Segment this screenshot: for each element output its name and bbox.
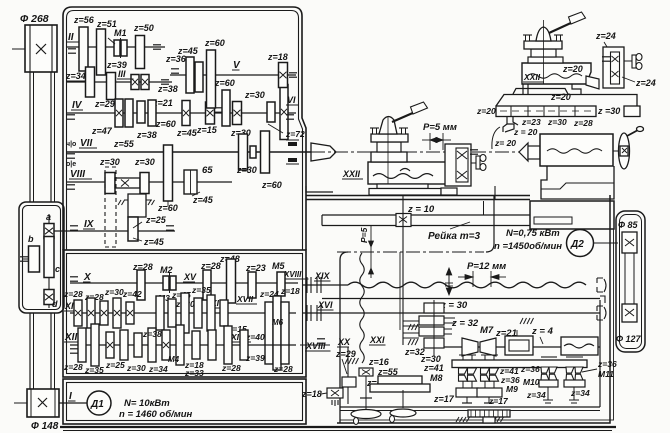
gear c tall (44, 237, 54, 278)
svg-text:IV: IV (72, 100, 83, 111)
gear VII b (261, 131, 270, 173)
svg-text:z=42: z=42 (122, 289, 142, 299)
cross screw knob (471, 155, 486, 171)
label XII (64, 332, 81, 343)
svg-text:z=30: z=30 (126, 363, 146, 373)
bevel pair M11 b (575, 367, 583, 380)
label VII (66, 138, 97, 149)
bearing shaft II right (153, 45, 161, 49)
shaft X (70, 282, 298, 284)
tool post 1 slide box (368, 162, 447, 184)
bevel pair M9 b (490, 368, 499, 381)
bevel pair M10 b (549, 367, 557, 380)
svg-text:z = 32: z = 32 (451, 318, 479, 329)
coupling box M7 right (505, 330, 533, 355)
gear X a (137, 270, 145, 300)
apron inner bottom (340, 407, 600, 411)
gears XVII stack (265, 296, 289, 370)
label XIV (210, 298, 227, 308)
tool post 1 axis (387, 116, 389, 184)
svg-text:z=17: z=17 (433, 394, 455, 404)
svg-text:z=38: z=38 (142, 329, 162, 339)
svg-text:z=24: z=24 (595, 31, 616, 41)
dashed gear IX (105, 167, 116, 247)
worm gear stack (419, 300, 444, 356)
svg-text:z=60: z=60 (157, 203, 178, 213)
carriage right support (494, 186, 496, 199)
gear IV mid1 (182, 101, 190, 126)
svg-text:z=28: z=28 (63, 289, 83, 299)
label XVIII right (305, 341, 331, 351)
bed top line (306, 195, 530, 197)
bed step from headstock (306, 186, 333, 192)
shaft XX vertical (347, 347, 349, 404)
svg-text:z=29: z=29 (94, 99, 115, 109)
bearing VIII left (67, 185, 75, 189)
svg-text:z=17: z=17 (488, 396, 509, 406)
svg-text:z=34: z=34 (526, 390, 546, 400)
svg-text:z=24: z=24 (635, 78, 656, 88)
turret center line (543, 20, 545, 84)
turret lever (549, 12, 586, 33)
handwheel small 1 (351, 376, 381, 425)
label VIII (66, 161, 92, 180)
gears XI row (74, 298, 134, 328)
shaft I (59, 402, 88, 404)
svg-text:Р=12 мм: Р=12 мм (467, 261, 506, 272)
gear z60 VIII bottom (167, 201, 169, 206)
svg-text:о|е: о|е (66, 161, 76, 168)
apron dial (468, 410, 510, 423)
svg-text:z=45: z=45 (176, 128, 198, 138)
gear z56 (79, 27, 88, 71)
svg-text:Ф 148: Ф 148 (31, 421, 59, 432)
svg-text:z=56: z=56 (73, 15, 95, 25)
svg-text:z=60: z=60 (261, 180, 282, 190)
bevel M9 block (477, 381, 504, 422)
hatch XX (345, 358, 359, 364)
svg-text:z=35: z=35 (191, 285, 211, 295)
bevel M11 block (564, 380, 585, 403)
svg-text:XVIII: XVIII (305, 341, 326, 351)
apron main shaft (444, 346, 600, 348)
tailstock spindle line (613, 150, 619, 152)
apron left wall (340, 252, 348, 423)
machine bottom edge (60, 426, 616, 428)
gear z29 XX (342, 377, 356, 387)
svg-text:z= 20: z= 20 (494, 138, 516, 148)
gear z51 (97, 29, 106, 75)
reverse unit shaft (48, 214, 50, 308)
shaft VIII (66, 181, 232, 183)
svg-text:b: b (28, 234, 34, 244)
turret foot left (523, 84, 528, 95)
bevel pair M9 a (481, 368, 490, 381)
turret tower plate (523, 35, 563, 49)
svg-text:XXI: XXI (369, 335, 385, 345)
svg-text:P=5: P=5 (359, 227, 369, 243)
saddle right hanger (486, 195, 494, 252)
svg-text:III: III (118, 69, 126, 79)
shifter bar 2 (370, 384, 430, 392)
bearing V left (171, 69, 179, 73)
svg-text:Ф 127: Ф 127 (616, 334, 642, 344)
label XV (183, 272, 197, 282)
label IX (83, 219, 95, 230)
gear X c (248, 272, 256, 298)
gears XII row (78, 324, 248, 366)
svg-text:n = 1460 об/мин: n = 1460 об/мин (119, 409, 193, 420)
cross screw unit (445, 144, 478, 186)
motor D1 (87, 391, 111, 415)
label XIII (230, 332, 251, 342)
svg-text:z=30: z=30 (547, 117, 567, 127)
svg-text:II: II (68, 32, 74, 43)
label XIX (314, 271, 331, 281)
pulley Ф127 (622, 304, 637, 322)
apron right wall (337, 195, 614, 423)
bearing VII left (67, 154, 75, 158)
svg-text:М6: М6 (272, 318, 284, 327)
svg-text:z=34: z=34 (65, 71, 86, 81)
label II (67, 32, 79, 43)
svg-text:XVI: XVI (317, 300, 333, 310)
svg-text:XV: XV (183, 272, 197, 282)
feed rod right bearing (597, 306, 606, 320)
rack pinion z10 (396, 214, 411, 227)
label IV (71, 100, 83, 111)
turret rail bracket (492, 117, 518, 149)
svg-text:z=55: z=55 (113, 139, 135, 149)
svg-text:z=30: z=30 (244, 90, 265, 100)
gear VIII left (105, 173, 115, 194)
svg-text:X: X (83, 272, 92, 283)
shaft XI (70, 312, 296, 314)
svg-text:z=60: z=60 (204, 38, 225, 48)
saddle centerline (337, 251, 484, 253)
svg-text:z=50: z=50 (133, 23, 154, 33)
spindle bearing bottom (286, 158, 299, 164)
bearing VI (286, 115, 294, 119)
clutch III x2 (141, 75, 149, 90)
tool post 1 dome (379, 117, 397, 135)
gear IV cluster 1 (115, 99, 123, 127)
gear z72 tall (280, 85, 288, 140)
bearing X left (70, 277, 78, 281)
label XI (64, 301, 76, 311)
gear IX a (128, 217, 138, 241)
bearing shaft III right (161, 80, 169, 84)
svg-text:z=20: z=20 (562, 64, 583, 74)
svg-text:z=30: z=30 (236, 165, 257, 175)
label XVII (236, 294, 257, 304)
svg-text:z=34: z=34 (570, 388, 590, 398)
gear III b (107, 73, 116, 100)
svg-text:Р=5 мм: Р=5 мм (423, 122, 457, 133)
belt left side (30, 72, 55, 202)
pulley Ф148 (14, 389, 59, 417)
right belt unit (616, 211, 645, 352)
label XX (337, 337, 351, 347)
svg-text:М2: М2 (160, 265, 173, 275)
gear IV cluster 4 (148, 100, 156, 126)
label XXII turret (523, 72, 544, 82)
gear VII a (239, 134, 248, 170)
pulley Ф268 (12, 25, 57, 72)
gear VIII right (140, 173, 149, 194)
gear IV cluster 3 (137, 101, 145, 123)
gear z18 (279, 63, 288, 88)
bearing V right (289, 73, 297, 77)
clutch VIII sleeve (115, 178, 140, 188)
leadscrew XIX stub (303, 284, 348, 286)
tailstock base (541, 166, 614, 199)
svg-text:Д1: Д1 (90, 399, 104, 410)
svg-text:z=60: z=60 (155, 119, 176, 129)
bearing XII (70, 349, 78, 353)
turret tower block (531, 49, 556, 57)
clutch M1 (114, 38, 127, 58)
updown arrow (445, 268, 453, 295)
svg-text:VI: VI (287, 95, 296, 105)
svg-text:65: 65 (202, 165, 213, 176)
svg-text:z=35: z=35 (84, 365, 104, 375)
rack bar (322, 215, 530, 226)
label X (83, 272, 92, 283)
svg-text:XVIII: XVIII (283, 270, 302, 279)
apron gear bar (452, 354, 587, 368)
feed gearbox housing (63, 250, 306, 377)
switch rod (322, 298, 600, 300)
label XVI (317, 300, 334, 310)
svg-text:XVII: XVII (236, 294, 254, 304)
svg-text:VIII: VIII (70, 169, 85, 180)
svg-text:М9: М9 (506, 384, 518, 394)
shaft II (66, 46, 165, 48)
bevel pair M10 a (541, 367, 549, 380)
svg-text:XI: XI (64, 301, 74, 311)
turret foot right (572, 84, 581, 95)
svg-text:М4: М4 (168, 355, 180, 364)
gear b (29, 246, 40, 272)
leadscrew wavy (348, 282, 586, 288)
svg-text:z=41: z=41 (423, 363, 444, 373)
svg-text:z=34: z=34 (148, 364, 168, 374)
vertical chain XX (360, 253, 364, 363)
bevel pair M8 b (468, 368, 477, 381)
hatch worm (408, 324, 418, 330)
svg-text:XII: XII (64, 332, 77, 343)
svg-text:z=72: z=72 (285, 129, 305, 139)
motor D2 (567, 230, 594, 257)
svg-text:z=38: z=38 (136, 130, 157, 140)
svg-text:z =30: z =30 (597, 106, 620, 116)
motor compartment box (63, 379, 306, 424)
svg-text:VII: VII (80, 138, 92, 149)
svg-text:z=45: z=45 (143, 237, 165, 247)
svg-text:z=30: z=30 (134, 157, 155, 167)
P=5 dimension (359, 225, 374, 278)
svg-text:Д2: Д2 (570, 239, 584, 250)
svg-text:z=47: z=47 (91, 126, 113, 136)
P=12 dimension (458, 261, 506, 287)
svg-text:М11: М11 (598, 369, 614, 379)
bevel pair M8 a (459, 368, 468, 381)
chuck cone (311, 143, 336, 161)
svg-text:z=36: z=36 (520, 364, 540, 374)
gear z16 XXI (359, 368, 373, 376)
bevel pair M11 a (566, 367, 574, 380)
svg-text:z=30: z=30 (99, 157, 120, 167)
svg-text:z=28: z=28 (63, 362, 83, 372)
gear IV right2 (267, 102, 275, 122)
turret dome (536, 27, 551, 41)
svg-text:Ф 268: Ф 268 (20, 13, 49, 25)
carriage centerline (311, 151, 528, 153)
label I (68, 391, 76, 402)
label V (232, 60, 241, 71)
spindle flange (250, 146, 256, 158)
svg-text:z=25: z=25 (105, 360, 125, 370)
svg-text:z = 10: z = 10 (407, 204, 435, 215)
svg-text:XXII: XXII (342, 169, 361, 179)
tool post 1 upper slide (371, 152, 407, 162)
gear a (44, 224, 54, 239)
svg-text:z=39: z=39 (245, 353, 265, 363)
gear III a (86, 67, 95, 97)
svg-text:z=23: z=23 (521, 117, 541, 127)
svg-text:N= 10кВт: N= 10кВт (124, 398, 170, 409)
svg-text:a: a (46, 212, 51, 222)
tailstock quill (528, 146, 540, 159)
gear IV mid3 mesh V (222, 90, 230, 126)
belt reverse unit box (19, 202, 64, 313)
turret slide box (522, 63, 591, 84)
svg-text:Рейка m=3: Рейка m=3 (428, 231, 480, 242)
z24 leader (604, 42, 612, 55)
shaft V (170, 74, 296, 76)
svg-text:z = 20: z = 20 (513, 127, 538, 137)
handwheel small 2 (390, 390, 417, 423)
svg-text:n =1450об/мин: n =1450об/мин (494, 241, 562, 252)
tool post 1 lever (392, 102, 428, 122)
label XXII carriage1 (342, 169, 363, 179)
svg-text:z=36: z=36 (597, 359, 617, 369)
svg-text:z=33: z=33 (184, 368, 204, 378)
bearing II left (68, 49, 76, 53)
svg-text:d: d (52, 299, 58, 309)
bearing IV left (67, 115, 75, 119)
svg-text:z=38: z=38 (157, 84, 178, 94)
tailstock quill center (519, 143, 528, 161)
label XVIII X (283, 270, 309, 279)
shaft XVIII stub (300, 344, 330, 346)
headstock housing (63, 7, 306, 250)
carriage 1 base (369, 184, 457, 195)
z24 right leader (622, 77, 635, 82)
svg-text:z=60: z=60 (214, 78, 235, 88)
svg-text:z=28: z=28 (573, 118, 593, 128)
svg-text:z=36: z=36 (165, 54, 187, 64)
leadscrew right bearing (597, 278, 606, 292)
tailstock handwheel (619, 127, 644, 170)
worm box right (561, 337, 598, 355)
shifter bar 1 (378, 376, 422, 384)
turret knob (624, 54, 642, 70)
svg-text:IX: IX (84, 219, 95, 230)
bearing IV mid (214, 108, 222, 112)
feed rod XVI (303, 312, 600, 314)
bearing block IX (118, 194, 155, 217)
svg-text:Ф 85: Ф 85 (618, 220, 639, 230)
belt lower left (30, 313, 55, 389)
svg-text:z=15: z=15 (196, 125, 218, 135)
tailstock body (540, 134, 613, 166)
coupling cones M7 (462, 338, 496, 356)
svg-text:N=0,75 кВт: N=0,75 кВт (506, 228, 560, 239)
spindle bearing top (286, 140, 299, 146)
svg-text:М10: М10 (523, 377, 540, 387)
gears XI mid (156, 293, 228, 333)
gear z45 V b (195, 62, 203, 92)
bed right block (530, 201, 614, 229)
svg-text:XIX: XIX (314, 271, 331, 281)
svg-text:z=16: z=16 (368, 357, 390, 367)
turret screw unit z24 (602, 47, 624, 88)
svg-text:XX: XX (337, 337, 351, 347)
svg-text:z=28: z=28 (221, 363, 241, 373)
svg-text:I: I (69, 391, 72, 402)
turret base plate (496, 89, 637, 107)
P=5mm dimension (422, 122, 457, 150)
tool post 1 block (377, 142, 401, 152)
turret bed rail (496, 106, 640, 117)
svg-text:z = 4: z = 4 (531, 326, 554, 337)
svg-text:XXII: XXII (523, 72, 541, 82)
svg-text:z=45: z=45 (192, 195, 214, 205)
svg-text:z=29: z=29 (335, 349, 356, 359)
right belt lines (625, 253, 634, 304)
clutch III x1 (131, 75, 139, 90)
gear z48 tall (227, 259, 236, 303)
label VI (286, 95, 298, 105)
bearing XIX (307, 277, 321, 293)
hatch M7 (520, 318, 534, 324)
shaft IV (66, 112, 296, 114)
gear 65 VIII (184, 170, 197, 194)
svg-text:М7: М7 (480, 325, 494, 336)
svg-text:c: c (55, 264, 60, 274)
svg-text:z=25: z=25 (145, 215, 167, 225)
D2 belt line (593, 242, 618, 244)
turret connector (586, 76, 599, 89)
gear z50 (136, 36, 145, 69)
bearing IX left (70, 226, 78, 230)
gear z60 V tall (207, 50, 216, 108)
shaft IX (54, 230, 175, 232)
bearing XVI (307, 305, 321, 321)
gear z18 XX (327, 388, 343, 406)
svg-text:ч|о: ч|о (66, 141, 76, 148)
svg-text:z=28: z=28 (273, 364, 293, 374)
turret tower plate2 (528, 57, 563, 63)
gear X d (277, 272, 285, 296)
clutch M2 (163, 273, 176, 293)
svg-text:z=20: z=20 (476, 106, 496, 116)
label XXI (369, 335, 386, 345)
gear z60 VIII tall (164, 145, 173, 201)
svg-text:z=30: z=30 (104, 287, 124, 297)
